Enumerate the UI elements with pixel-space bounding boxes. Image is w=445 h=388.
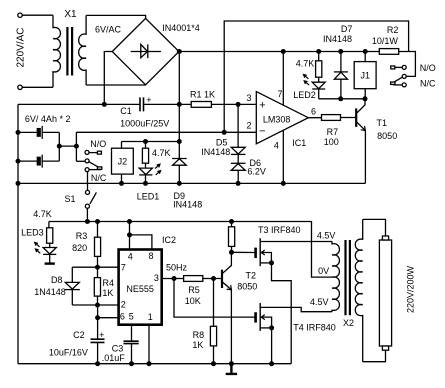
wire: bottom ground rail: [18, 363, 291, 365]
MOSFET T3 IRF840: [256, 225, 332, 266]
diode D8: [34, 267, 80, 305]
wire: pin 1 to ground rail: [148, 325, 150, 364]
svg-text:D5: D5: [216, 137, 228, 147]
svg-text:C1: C1: [120, 106, 132, 116]
svg-text:IC2: IC2: [162, 235, 176, 245]
resistor R4 1K: [94, 267, 114, 305]
svg-text:D7: D7: [341, 24, 353, 34]
wire: bridge right corner to R2 left: [179, 51, 408, 53]
svg-text:10uF/16V: 10uF/16V: [49, 348, 88, 358]
svg-text:R4: R4: [103, 278, 115, 288]
svg-text:LED2: LED2: [293, 90, 316, 100]
svg-text:0V: 0V: [318, 266, 329, 276]
svg-text:N/C: N/C: [91, 173, 107, 183]
resistor R7 100: [308, 115, 355, 147]
svg-text:4.7K: 4.7K: [296, 59, 315, 69]
resistor R5 10K: [184, 276, 203, 306]
wire: top rail from pin2 vertical to relay contacts: [224, 21, 408, 132]
svg-text:4.5V: 4.5V: [317, 230, 336, 240]
wire: pin 3 output wire: [162, 278, 222, 280]
bridge rectifier IN4001*4: [112, 18, 200, 84]
svg-text:7: 7: [121, 262, 126, 272]
X2 core: [346, 240, 350, 315]
wire: pole feed of J2 contacts: [76, 160, 85, 162]
diode D7: [323, 24, 352, 99]
svg-text:8050: 8050: [377, 131, 397, 141]
wire: X2 secondary to tube top: [363, 219, 386, 236]
svg-text:R1 1K: R1 1K: [190, 90, 215, 100]
svg-text:IN4148: IN4148: [201, 147, 230, 157]
resistor 4.7K (LED3 branch): [33, 209, 53, 248]
switch S1: [64, 190, 96, 208]
svg-text:J1: J1: [360, 71, 370, 81]
svg-text:T2: T2: [246, 271, 257, 281]
svg-text:3: 3: [154, 273, 159, 283]
svg-text:10K: 10K: [185, 296, 201, 306]
capacitor C3: [102, 325, 139, 364]
wire: pin 4 to sense rail: [282, 131, 284, 184]
svg-text:50Hz: 50Hz: [166, 262, 188, 272]
svg-text:X1: X1: [64, 9, 77, 20]
resistor (T3 gate pull-up, unlabeled): [229, 222, 235, 253]
svg-text:IN4148: IN4148: [173, 199, 202, 209]
svg-text:4.7K: 4.7K: [152, 148, 171, 158]
svg-text:5: 5: [129, 312, 134, 322]
svg-text:N/O: N/O: [420, 63, 436, 73]
bridge diamond: [112, 18, 179, 84]
ground (LED3): [45, 262, 55, 264]
svg-text:T1: T1: [377, 118, 388, 128]
svg-text:T4 IRF840: T4 IRF840: [293, 323, 336, 333]
resistor R3 820: [72, 222, 100, 268]
svg-text:4.5V: 4.5V: [310, 297, 329, 307]
bridge diode symbol: [131, 44, 161, 58]
svg-text:+: +: [259, 99, 265, 111]
diode D9: [172, 159, 202, 210]
svg-text:6V/ 4Ah * 2: 6V/ 4Ah * 2: [25, 114, 71, 124]
transistor T2 8050: [222, 252, 257, 363]
resistor R1 1K: [190, 90, 215, 108]
battery cell 1: [18, 126, 59, 139]
svg-text:N/O: N/O: [90, 139, 106, 149]
resistor R2 10/1W: [372, 25, 399, 55]
wire: battery+ vertical riser: [59, 132, 76, 161]
svg-text:2: 2: [121, 299, 126, 309]
wire: AC top terminal to primary: [22, 14, 53, 16]
X1 core: [67, 27, 72, 76]
relay J2 coil: [112, 142, 134, 184]
svg-text:220V/200W: 220V/200W: [406, 265, 416, 313]
capacitor C2: [49, 330, 105, 364]
resistor R8 1K: [192, 279, 216, 364]
diode D6 6.2V: [231, 154, 266, 183]
wire: S1 to supply rail: [86, 208, 88, 221]
battery 6V/4Ah*2: [18, 114, 70, 168]
svg-text:3: 3: [246, 93, 251, 103]
battery cell 2: [18, 155, 59, 168]
wire: IC2 supply branch: [130, 222, 152, 250]
svg-text:IC1: IC1: [292, 138, 306, 148]
svg-text:1000uF/25V: 1000uF/25V: [120, 119, 169, 129]
N/C fixed contact: [85, 168, 89, 172]
wire: secondary bottom to bridge bottom: [86, 84, 146, 86]
diode D5: [201, 104, 245, 157]
wire: sense rail y=183.4: [18, 182, 365, 184]
X2 primary winding: [332, 241, 339, 311]
wire: jog from R2 right to J1 contact pole: [406, 52, 415, 77]
svg-text:NE555: NE555: [126, 284, 154, 294]
svg-text:1K: 1K: [102, 288, 113, 298]
op-amp IC1 LM308: [246, 89, 316, 151]
svg-text:6: 6: [120, 312, 125, 322]
wire: pin2 sense wire: [76, 131, 256, 133]
svg-text:8050: 8050: [237, 282, 257, 292]
svg-text:IN4148: IN4148: [323, 34, 352, 44]
X1 secondary winding: [79, 15, 86, 85]
svg-text:IN4001*4: IN4001*4: [162, 23, 200, 33]
svg-text:8: 8: [148, 251, 153, 261]
svg-text:.01uF: .01uF: [102, 353, 126, 363]
svg-text:D8: D8: [51, 275, 63, 285]
svg-text:C2: C2: [73, 330, 85, 340]
wire: bridge left corner down to main rail: [104, 52, 112, 105]
timer IC2 NE555: [119, 235, 176, 325]
transistor T1 8050: [356, 99, 397, 184]
pole contact: [85, 159, 89, 163]
resistor 4.7K (LED1 branch): [142, 142, 170, 168]
svg-text:C3: C3: [112, 344, 124, 354]
AC input terminal bottom: [18, 85, 22, 89]
transformer X1: [15, 9, 121, 87]
movable arm: [393, 77, 402, 82]
svg-text:7: 7: [277, 89, 282, 99]
X2 secondary winding: [355, 219, 362, 361]
resistor 4.7K (LED2 branch): [296, 52, 322, 83]
relay J1 coil: [354, 52, 376, 99]
wire: X2 secondary to tube bottom: [363, 350, 386, 362]
X1 primary winding: [53, 15, 60, 87]
fluorescent tube 220V/200W: [379, 236, 415, 350]
svg-text:X2: X2: [343, 318, 354, 328]
LED3: [21, 227, 56, 263]
LED2: [293, 75, 325, 100]
svg-text:LED1: LED1: [137, 191, 160, 201]
capacitor C1: [120, 95, 169, 129]
wire: pin 7 to top wire: [282, 52, 284, 106]
svg-text:LM308: LM308: [263, 115, 291, 125]
svg-text:6: 6: [311, 107, 316, 117]
wire: pin 6 wire and C2 riser: [98, 305, 119, 339]
svg-text:10/1W: 10/1W: [372, 36, 399, 46]
relay J2 contacts: [85, 139, 107, 183]
svg-text:1: 1: [148, 312, 153, 322]
svg-text:6.2V: 6.2V: [247, 166, 266, 176]
svg-text:100: 100: [324, 137, 339, 147]
wire: battery right link: [58, 132, 60, 161]
wire: pin 7 wire: [72, 266, 118, 268]
svg-text:S1: S1: [64, 194, 75, 204]
svg-text:J2: J2: [118, 157, 128, 167]
wire: supply rail y=221.5 to X2 centre tap: [49, 222, 332, 278]
svg-text:+: +: [146, 95, 151, 105]
svg-text:N/C: N/C: [420, 79, 436, 89]
wire: T3 source to ground rail: [272, 263, 292, 364]
N/C fixed contact: [402, 83, 406, 87]
wire: secondary top to bridge top: [86, 15, 146, 18]
relay J1 contacts: [391, 63, 436, 89]
wire: J2 coil top wire: [122, 141, 180, 143]
svg-text:−: −: [259, 126, 265, 138]
pole contact: [402, 74, 406, 78]
LED1: [137, 164, 161, 201]
svg-text:+: +: [99, 330, 104, 340]
svg-text:LED3: LED3: [21, 227, 44, 237]
wire: N/C contact down to S1: [87, 172, 89, 191]
MOSFET T4 IRF840: [256, 303, 336, 333]
wire: bridge right corner down to main rail, through pin2 wire, to D9: [178, 52, 180, 159]
wire: T4 source to ground rail: [271, 328, 273, 364]
AC input terminal top: [18, 13, 22, 17]
transformer X2: [310, 219, 363, 361]
svg-text:R8: R8: [193, 330, 205, 340]
svg-text:4: 4: [274, 140, 279, 150]
svg-text:6V/AC: 6V/AC: [95, 25, 122, 35]
wire: LED2/D7/J1 bottom wire to T1 collector: [319, 98, 365, 100]
svg-text:1K: 1K: [192, 340, 203, 350]
wire: T2 collector to T3 gate: [231, 251, 255, 253]
svg-text:4: 4: [128, 251, 133, 261]
svg-text:R3: R3: [76, 231, 88, 241]
N/O fixed contact: [85, 150, 89, 154]
svg-text:1N4148: 1N4148: [34, 287, 66, 297]
wire: pin 2 wire: [72, 304, 118, 306]
svg-text:4.7K: 4.7K: [33, 209, 52, 219]
movable arm: [89, 162, 98, 167]
left rail: [17, 104, 19, 363]
wire: main positive rail y=104.4: [18, 103, 256, 105]
N/O fixed contact: [402, 65, 406, 69]
svg-text:R2: R2: [387, 25, 399, 35]
svg-text:2: 2: [246, 121, 251, 131]
svg-text:820: 820: [72, 243, 87, 253]
svg-text:R7: R7: [327, 127, 339, 137]
svg-text:220V/AC: 220V/AC: [15, 27, 26, 67]
svg-text:T3 IRF840: T3 IRF840: [258, 225, 301, 235]
wire: pin3 branch down to T4 gate: [174, 279, 255, 318]
ground symbol: [226, 364, 237, 374]
wire: AC bottom terminal to primary: [22, 86, 53, 88]
svg-text:R5: R5: [188, 285, 200, 295]
